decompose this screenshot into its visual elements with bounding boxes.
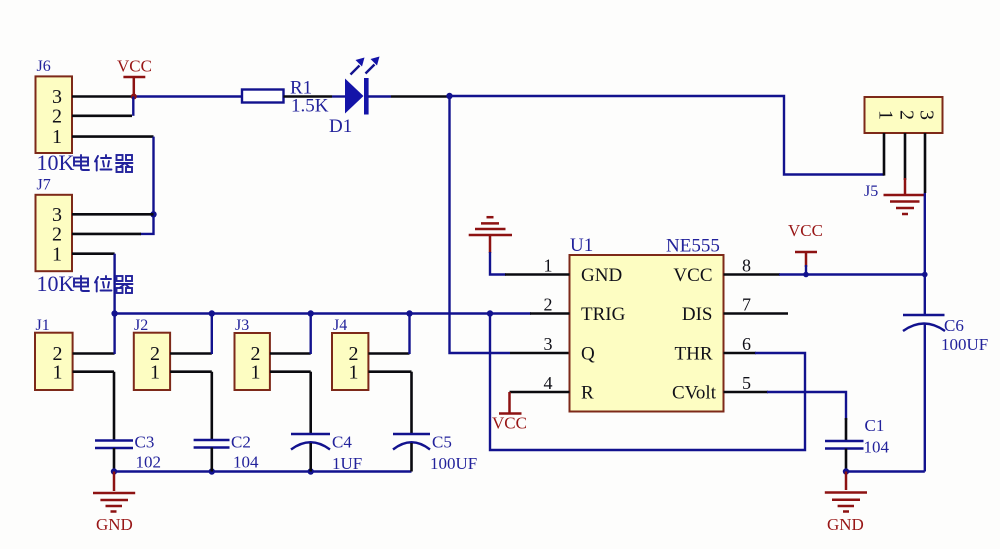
svg-text:1.5K: 1.5K <box>291 96 329 117</box>
svg-text:D1: D1 <box>329 116 352 137</box>
junction TRIG bus at THR return <box>487 310 493 316</box>
wire C1 top stub <box>845 418 848 441</box>
svg-text:2: 2 <box>52 106 62 128</box>
wire top rail to J5 drop <box>450 96 885 175</box>
capacitor C6 (polarized) <box>903 315 945 331</box>
wire Q net vertical <box>450 96 511 353</box>
wire J6 pin1 stub <box>72 135 154 138</box>
svg-text:C1: C1 <box>865 416 885 435</box>
svg-text:1: 1 <box>52 126 62 148</box>
wire J5 pin2 stub <box>904 133 907 180</box>
svg-text:J3: J3 <box>235 317 249 334</box>
wire C1 bottom stub <box>845 449 848 472</box>
label 10K pot (J6) <box>37 150 133 175</box>
connector J6 <box>36 76 73 153</box>
wire J7 pin3 stub <box>72 213 154 216</box>
svg-text:1: 1 <box>874 110 896 120</box>
svg-text:J5: J5 <box>864 183 878 200</box>
wire J6.2 up to VCC node <box>132 97 134 116</box>
wire CVolt to C1 <box>767 392 846 420</box>
wire J5 pin1 stub <box>883 133 886 176</box>
connector J3 <box>235 333 270 390</box>
svg-text:104: 104 <box>864 438 890 457</box>
wire J4 pin1 stub <box>368 370 411 373</box>
LED D1 cathode bar <box>364 78 369 115</box>
wire J7 pin2 stub <box>72 233 141 236</box>
wire J4 pin2 stub <box>368 352 409 355</box>
svg-text:J7: J7 <box>37 177 51 194</box>
svg-text:C6: C6 <box>944 316 964 335</box>
wire J2 pin2 stub <box>170 352 212 355</box>
wire U1 pin6 stub <box>724 352 757 355</box>
ground symbol GND (left) <box>93 493 135 512</box>
svg-text:GND: GND <box>581 265 622 286</box>
wire C6 down <box>924 324 926 472</box>
label 10K pot (J7) <box>37 271 133 296</box>
svg-text:NE555: NE555 <box>666 236 720 257</box>
wire C2 bottom stub <box>211 448 214 472</box>
svg-text:5: 5 <box>742 373 751 393</box>
junction TRIG bus at J1 <box>111 310 117 316</box>
svg-text:2: 2 <box>544 295 553 315</box>
svg-text:102: 102 <box>136 453 162 472</box>
wire J7.1 down to TRIG bus <box>113 254 115 314</box>
wire GND stem (left) <box>113 472 116 492</box>
svg-text:C3: C3 <box>135 433 155 452</box>
wire J1 pin2 stub <box>73 352 115 355</box>
wire C5 bottom stub <box>410 443 413 472</box>
junction Q net top <box>446 93 452 99</box>
wire bottom bus <box>114 470 412 472</box>
svg-text:7: 7 <box>742 295 751 315</box>
wire J2.1 down to C2 <box>211 372 214 440</box>
svg-text:C5: C5 <box>432 433 452 452</box>
svg-text:THR: THR <box>675 344 713 365</box>
svg-text:TRIG: TRIG <box>581 304 626 325</box>
svg-text:1: 1 <box>349 362 359 384</box>
wire black segment to Q node <box>391 95 450 98</box>
capacitor C3 <box>95 441 133 449</box>
VCC symbol (right) <box>788 221 823 275</box>
wire J4.2 to bus <box>408 314 410 355</box>
svg-text:1: 1 <box>150 362 160 384</box>
svg-text:1: 1 <box>52 243 62 265</box>
LED D1 arrow 2 <box>366 57 380 74</box>
wire J1.1 down to C3 <box>113 372 116 441</box>
svg-text:GND: GND <box>827 515 864 534</box>
hanzi qi <box>116 276 133 293</box>
junction at right rail corner <box>922 272 928 278</box>
hanzi qi <box>116 155 133 172</box>
wire J6 pin2 stub <box>72 115 132 118</box>
svg-text:J1: J1 <box>36 317 50 334</box>
hanzi wei <box>95 276 112 292</box>
IC U1 NE555 body <box>570 255 724 412</box>
junction TRIG bus at J4 <box>406 310 412 316</box>
wire R1 right stub <box>284 95 333 98</box>
hanzi wei <box>95 155 112 171</box>
junction C3 bottom <box>111 468 117 474</box>
wire J2.2 to bus <box>211 314 213 355</box>
svg-text:4: 4 <box>544 373 553 393</box>
wire bottom right link <box>846 470 925 472</box>
wire J5 pin2 to ground <box>904 178 907 195</box>
wire J1.2 to bus <box>113 314 115 355</box>
connector J1 <box>35 333 73 390</box>
svg-text:10K: 10K <box>37 150 75 175</box>
capacitor C4 (polarized) <box>291 434 330 450</box>
wire U1 pin1 stub <box>505 273 570 276</box>
resistor R1 <box>242 90 284 103</box>
wire U1 pin2 stub <box>530 312 570 315</box>
svg-text:R: R <box>581 383 594 404</box>
wire J1 pin1 stub <box>73 370 114 373</box>
svg-text:C4: C4 <box>332 433 352 452</box>
wire VCC net to R1 <box>133 95 242 97</box>
ground symbol at J5 <box>884 195 925 214</box>
wire U1 pin5 stub <box>724 391 769 394</box>
LED D1 triangle <box>345 79 364 114</box>
wire J3.1 down to C4 <box>309 372 312 434</box>
connector J7 <box>36 195 73 271</box>
wire J3.2 to bus <box>310 314 312 355</box>
svg-text:1UF: 1UF <box>332 454 362 473</box>
wire pin4 down to VCC <box>508 392 511 414</box>
earth ground above pin 1 <box>469 217 512 253</box>
svg-text:3: 3 <box>915 110 937 120</box>
LED D1 arrow 1 <box>351 58 365 75</box>
junction TRIG bus at J2 <box>209 310 215 316</box>
junction VCC/J6.3 <box>131 94 137 100</box>
hanzi dian <box>74 276 89 291</box>
wire J6 pin3 stub <box>72 95 134 98</box>
svg-text:100UF: 100UF <box>430 454 477 473</box>
VCC symbol (top left) <box>117 57 152 97</box>
svg-text:1: 1 <box>544 256 553 276</box>
svg-text:VCC: VCC <box>673 265 712 286</box>
wire THR loop <box>490 314 805 451</box>
svg-text:1: 1 <box>251 362 261 384</box>
connector J2 <box>134 333 170 390</box>
svg-text:6: 6 <box>742 334 751 354</box>
svg-text:VCC: VCC <box>492 414 527 433</box>
wire J3 pin1 stub <box>270 370 311 373</box>
wire D1 cathode <box>368 95 391 97</box>
svg-text:DIS: DIS <box>682 304 713 325</box>
capacitor C5 (polarized) <box>393 434 430 450</box>
junction VCC rail <box>803 272 809 278</box>
wire U1 pin8 stub <box>724 273 781 276</box>
svg-text:1: 1 <box>53 362 63 384</box>
svg-text:Q: Q <box>581 344 595 365</box>
connector J4 <box>332 333 368 390</box>
wire J2 pin1 stub <box>170 370 212 373</box>
wire TRIG bus <box>115 312 531 314</box>
svg-text:J4: J4 <box>333 317 347 334</box>
wire J5.3 down to VCC rail <box>924 193 926 314</box>
junction TRIG bus at J3 <box>308 310 314 316</box>
capacitor C2 <box>194 440 230 448</box>
junction bottom bus C2 <box>209 468 215 474</box>
connector J5 <box>865 97 943 133</box>
wire earth to pin1 <box>490 252 506 275</box>
wire R1 to D1 <box>332 95 346 97</box>
junction J7.3 on vertical <box>150 211 156 217</box>
svg-text:GND: GND <box>96 515 133 534</box>
wire VCC rail pin8 <box>779 273 925 275</box>
wire Q pin stub <box>510 352 570 355</box>
capacitor C1 <box>825 441 864 449</box>
hanzi dian <box>74 155 89 170</box>
VCC symbol at pin 4 <box>492 414 527 433</box>
svg-text:104: 104 <box>233 453 259 472</box>
svg-text:2: 2 <box>52 224 62 246</box>
svg-text:2: 2 <box>895 110 917 120</box>
ground symbol GND (right) <box>825 493 867 512</box>
wire C4 bottom stub <box>309 443 312 472</box>
svg-text:VCC: VCC <box>117 57 152 76</box>
svg-text:CVolt: CVolt <box>672 383 717 404</box>
wire J7 pin1 stub <box>72 252 115 255</box>
wire J3 pin2 stub <box>270 352 311 355</box>
svg-text:J2: J2 <box>134 317 148 334</box>
svg-text:100UF: 100UF <box>941 335 988 354</box>
svg-text:J6: J6 <box>37 58 51 75</box>
wire J4.1 down to C5 <box>410 372 413 434</box>
svg-text:10K: 10K <box>37 271 75 296</box>
wire U1 pin4 stub <box>510 391 570 394</box>
wire C1 to ground <box>845 472 848 491</box>
svg-text:U1: U1 <box>570 235 593 256</box>
wire U1 pin7 stub (DIS, open) <box>724 312 789 315</box>
svg-text:3: 3 <box>544 334 553 354</box>
svg-text:C2: C2 <box>231 433 251 452</box>
junction C1 bottom <box>843 468 849 474</box>
svg-text:VCC: VCC <box>788 221 823 240</box>
wire C3 bottom stub <box>113 448 116 472</box>
wire J5 pin3 stub <box>924 133 927 193</box>
wire J6.1 down to J7 <box>140 137 154 234</box>
junction bottom bus C4 <box>308 468 314 474</box>
svg-text:8: 8 <box>742 256 751 276</box>
